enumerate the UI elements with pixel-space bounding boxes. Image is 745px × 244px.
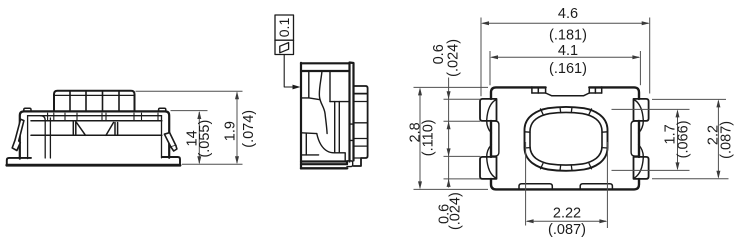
svg-text:(.161): (.161) bbox=[549, 61, 587, 77]
top view terminal top-left bbox=[480, 99, 497, 133]
svg-text:0.1: 0.1 bbox=[276, 18, 292, 38]
arrows 0.6 upper (outside) bbox=[447, 91, 451, 99]
top view: 2.2 ext lines bbox=[652, 98, 726, 100]
arrowheads bbox=[197, 21, 720, 223]
front view plate tick marks bbox=[48, 113, 158, 121]
svg-text:(.066): (.066) bbox=[676, 120, 692, 158]
side view actuator stem stack bbox=[347, 86, 368, 167]
top view central actuator ring inner bbox=[530, 112, 602, 165]
front view left mounting clip bbox=[12, 119, 24, 150]
svg-text:(.024): (.024) bbox=[448, 192, 464, 230]
top view bottom-edge bumps bbox=[519, 184, 612, 190]
ext line seating bottom (1.4 and 1.9) bbox=[182, 163, 243, 165]
svg-text:1.9: 1.9 bbox=[222, 121, 238, 141]
top view: 2.8 ext lines bbox=[414, 86, 489, 88]
top view: ext lines 4.6 bbox=[480, 18, 482, 97]
top view terminal bottom-right bbox=[634, 145, 649, 179]
svg-text:4.1: 4.1 bbox=[558, 43, 578, 59]
front view metal cover plate bbox=[20, 108, 169, 158]
arrows 0.6 lower (outside) bbox=[447, 148, 451, 156]
front view button (pushbutton top actuator, segmented) bbox=[54, 91, 135, 112]
svg-text:(.087): (.087) bbox=[719, 121, 735, 159]
arrows 1.7 bbox=[676, 109, 680, 117]
svg-text:(.024): (.024) bbox=[446, 39, 462, 77]
front view left terminal foot bbox=[7, 158, 31, 165]
side view flatness leader arrow bbox=[284, 55, 300, 90]
side view inner mold lines bbox=[302, 71, 354, 162]
front view right terminal foot bbox=[162, 157, 180, 165]
svg-text:(.181): (.181) bbox=[549, 28, 587, 44]
dimension line 4.1 bbox=[492, 56, 640, 58]
front view cover inner fold lines bbox=[28, 116, 162, 159]
arrows 4.6 bbox=[481, 21, 489, 25]
dimension line 1.4 bbox=[198, 112, 200, 163]
dimension line 2.2 bbox=[717, 101, 719, 177]
ext line button top (1.9) bbox=[136, 90, 243, 92]
svg-text:(.055): (.055) bbox=[197, 120, 213, 158]
dimension line 4.6 bbox=[483, 22, 649, 24]
front view right mounting clip bbox=[164, 133, 177, 151]
svg-text:4.6: 4.6 bbox=[558, 6, 578, 22]
top view right inner capsule bbox=[631, 121, 638, 156]
top view terminal bottom-left bbox=[480, 145, 497, 179]
svg-text:(.074): (.074) bbox=[241, 110, 257, 148]
arrows 2.22 bbox=[526, 219, 534, 223]
top view: 1.7 ext lines bbox=[612, 108, 690, 110]
side view body outline bbox=[301, 63, 354, 169]
arrows 4.1 bbox=[490, 55, 498, 59]
top view left inner capsule bbox=[492, 121, 499, 156]
svg-text:2.22: 2.22 bbox=[553, 205, 581, 221]
top view body outline bbox=[491, 87, 639, 189]
top view top-edge recess with teeth bbox=[532, 87, 602, 95]
arrows 1.9 bbox=[235, 91, 239, 99]
side view flatness feature control frame bbox=[275, 15, 294, 55]
arrows 2.2 bbox=[716, 99, 720, 107]
front view body face band with trapezoid recess bbox=[31, 121, 162, 136]
top view: ext lines 4.1 bbox=[489, 51, 491, 85]
arrows 1.4 bbox=[197, 111, 201, 119]
dimension line 1.7 bbox=[677, 111, 679, 169]
top view: 2.22 ext lines bbox=[525, 142, 527, 226]
svg-text:(.087): (.087) bbox=[548, 222, 586, 238]
top view ring segment ticks bbox=[525, 107, 608, 170]
dimension and extension lines bbox=[136, 18, 729, 229]
dimension line 0.6 pair (left vertical) bbox=[448, 78, 450, 188]
svg-text:(.110): (.110) bbox=[420, 119, 436, 156]
dimension line 2.22 bbox=[527, 220, 606, 222]
dimension line 2.8 bbox=[419, 89, 421, 188]
arrows 2.8 bbox=[418, 87, 422, 95]
dimension line 1.9 bbox=[236, 93, 238, 164]
top view central actuator ring outer bbox=[525, 107, 608, 171]
ext line plate top (1.4) bbox=[171, 110, 208, 112]
front view body bottom seating line bbox=[7, 164, 180, 167]
top view: 0.6 lower ext lines bbox=[444, 155, 481, 157]
top view terminal top-right bbox=[634, 99, 649, 133]
top view: 0.6 upper ext lines bbox=[444, 98, 481, 100]
dimension texts bbox=[184, 6, 734, 238]
